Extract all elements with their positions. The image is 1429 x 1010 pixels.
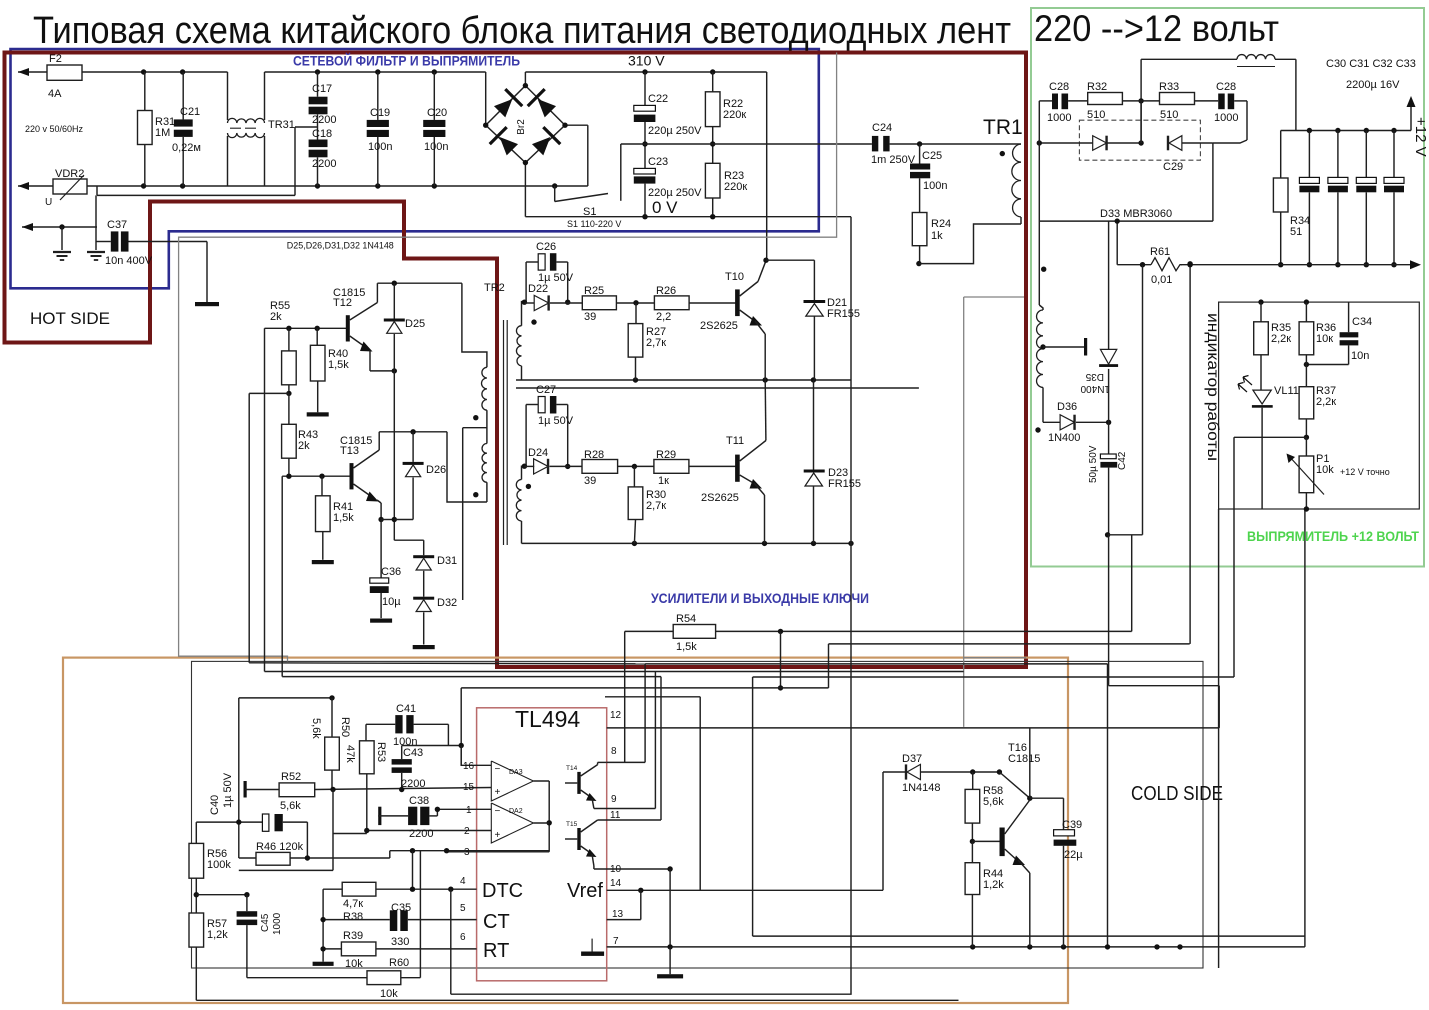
svg-text:DA2: DA2 — [509, 808, 523, 815]
svg-text:220 -->12 вольт: 220 -->12 вольт — [1034, 8, 1279, 49]
svg-text:D32: D32 — [437, 597, 457, 609]
svg-text:R38: R38 — [343, 911, 363, 923]
svg-text:2200: 2200 — [312, 158, 336, 170]
svg-text:TR1: TR1 — [983, 116, 1023, 139]
svg-text:C37: C37 — [107, 219, 127, 231]
svg-text:9: 9 — [611, 794, 617, 805]
svg-text:220 v 50/60Hz: 220 v 50/60Hz — [25, 124, 84, 134]
svg-text:TL494: TL494 — [515, 706, 580, 732]
svg-text:4: 4 — [460, 876, 466, 887]
svg-text:330: 330 — [391, 936, 409, 948]
svg-text:8: 8 — [611, 746, 617, 757]
svg-text:100n: 100n — [923, 180, 947, 192]
svg-text:47k: 47k — [344, 745, 356, 763]
svg-text:HOT SIDE: HOT SIDE — [30, 309, 110, 328]
svg-text:D22: D22 — [528, 283, 548, 295]
svg-text:C34: C34 — [1352, 316, 1372, 328]
svg-text:10k: 10k — [1316, 464, 1334, 476]
svg-text:T15: T15 — [566, 821, 578, 828]
svg-text:100k: 100k — [207, 859, 231, 871]
svg-text:5,6k: 5,6k — [280, 800, 301, 812]
svg-text:0 V: 0 V — [652, 198, 678, 217]
svg-text:1000: 1000 — [1047, 112, 1071, 124]
svg-text:10n 400V: 10n 400V — [105, 255, 153, 267]
svg-text:2S2625: 2S2625 — [701, 492, 739, 504]
svg-text:2k: 2k — [270, 311, 282, 323]
svg-text:2,2: 2,2 — [656, 311, 671, 323]
svg-text:C39: C39 — [1062, 819, 1082, 831]
svg-text:T10: T10 — [725, 271, 744, 283]
svg-text:C19: C19 — [370, 107, 390, 119]
svg-text:D35: D35 — [1085, 371, 1104, 382]
svg-text:C25: C25 — [922, 150, 942, 162]
svg-text:COLD SIDE: COLD SIDE — [1131, 783, 1223, 805]
svg-text:220к: 220к — [723, 109, 746, 121]
svg-text:1,5k: 1,5k — [328, 359, 349, 371]
svg-text:13: 13 — [612, 909, 624, 920]
svg-text:TR2: TR2 — [484, 282, 505, 294]
svg-text:R53: R53 — [375, 742, 387, 762]
svg-text:C26: C26 — [536, 241, 556, 253]
svg-text:+: + — [495, 787, 501, 798]
svg-text:TR31: TR31 — [268, 119, 295, 131]
svg-text:C38: C38 — [409, 795, 429, 807]
svg-text:C30 C31 C32 C33: C30 C31 C32 C33 — [1326, 58, 1416, 70]
svg-text:22µ: 22µ — [1064, 849, 1083, 861]
svg-text:D36: D36 — [1057, 401, 1077, 413]
svg-text:T13: T13 — [340, 445, 359, 457]
svg-text:2,7к: 2,7к — [646, 337, 666, 349]
svg-text:DTC: DTC — [482, 880, 523, 902]
svg-text:R28: R28 — [584, 449, 604, 461]
svg-text:C27: C27 — [536, 384, 556, 396]
svg-text:1: 1 — [466, 805, 472, 816]
svg-text:6: 6 — [460, 932, 466, 943]
svg-text:R39: R39 — [343, 930, 363, 942]
svg-text:T14: T14 — [566, 765, 578, 772]
svg-text:0,01: 0,01 — [1151, 274, 1172, 286]
svg-text:12: 12 — [610, 710, 622, 721]
svg-text:УСИЛИТЕЛИ И ВЫХОДНЫЕ КЛЮЧИ: УСИЛИТЕЛИ И ВЫХОДНЫЕ КЛЮЧИ — [651, 590, 869, 606]
svg-text:C28: C28 — [1216, 81, 1236, 93]
svg-text:2200: 2200 — [312, 114, 336, 126]
svg-text:C35: C35 — [391, 902, 411, 914]
svg-text:1,2k: 1,2k — [983, 879, 1004, 891]
svg-text:S1 110-220 V: S1 110-220 V — [567, 219, 621, 229]
svg-text:1,5k: 1,5k — [676, 641, 697, 653]
svg-text:310 V: 310 V — [628, 53, 665, 69]
svg-text:C40: C40 — [209, 795, 221, 815]
svg-text:7: 7 — [613, 936, 619, 947]
svg-text:2,2к: 2,2к — [1271, 333, 1291, 345]
svg-text:C42: C42 — [1117, 451, 1128, 470]
svg-text:T11: T11 — [726, 435, 744, 447]
svg-text:5: 5 — [460, 903, 466, 914]
svg-text:D25,D26,D31,D32 1N4148: D25,D26,D31,D32 1N4148 — [287, 241, 394, 251]
svg-text:−: − — [495, 764, 501, 775]
svg-text:T12: T12 — [333, 297, 352, 309]
svg-text:D26: D26 — [426, 464, 446, 476]
svg-text:индикатор работы: индикатор работы — [1204, 313, 1221, 461]
svg-text:CT: CT — [483, 911, 510, 933]
svg-text:1000: 1000 — [272, 912, 283, 935]
svg-text:F2: F2 — [49, 53, 62, 65]
svg-text:C41: C41 — [396, 703, 416, 715]
svg-text:39: 39 — [584, 311, 596, 323]
svg-text:0,22м: 0,22м — [172, 142, 201, 154]
svg-text:R32: R32 — [1087, 81, 1107, 93]
svg-text:1,2k: 1,2k — [207, 929, 228, 941]
svg-text:C29: C29 — [1163, 161, 1183, 173]
svg-text:2,2к: 2,2к — [1316, 396, 1336, 408]
svg-text:2k: 2k — [298, 440, 310, 452]
svg-text:1N400: 1N400 — [1048, 432, 1080, 444]
svg-text:C45: C45 — [260, 913, 271, 932]
svg-text:2,7к: 2,7к — [646, 500, 666, 512]
svg-text:1к: 1к — [658, 475, 669, 487]
svg-text:1000: 1000 — [1214, 112, 1238, 124]
svg-text:R46 120k: R46 120k — [256, 841, 304, 853]
svg-text:51: 51 — [1290, 226, 1302, 238]
svg-text:3: 3 — [464, 847, 470, 858]
svg-text:C22: C22 — [648, 93, 668, 105]
svg-text:C28: C28 — [1049, 81, 1069, 93]
svg-text:R52: R52 — [281, 771, 301, 783]
svg-text:C23: C23 — [648, 156, 668, 168]
svg-text:10k: 10k — [380, 988, 398, 1000]
svg-text:2: 2 — [464, 826, 470, 837]
svg-text:+: + — [495, 830, 501, 841]
svg-text:RT: RT — [483, 940, 509, 962]
svg-text:VDR2: VDR2 — [55, 168, 84, 180]
svg-text:5,6k: 5,6k — [983, 796, 1004, 808]
svg-text:100n: 100n — [368, 141, 392, 153]
svg-text:C20: C20 — [427, 107, 447, 119]
svg-text:R33: R33 — [1159, 81, 1179, 93]
svg-text:2200µ 16V: 2200µ 16V — [1346, 79, 1400, 91]
svg-text:2200: 2200 — [409, 828, 433, 840]
svg-text:1M: 1M — [155, 127, 170, 139]
svg-text:1,5k: 1,5k — [333, 512, 354, 524]
svg-text:220µ 250V: 220µ 250V — [648, 125, 702, 137]
svg-text:D33 MBR3060: D33 MBR3060 — [1100, 208, 1172, 220]
svg-text:2S2625: 2S2625 — [700, 320, 738, 332]
svg-text:U: U — [45, 197, 52, 208]
svg-text:10µ: 10µ — [382, 596, 401, 608]
svg-text:C21: C21 — [180, 106, 200, 118]
svg-text:4A: 4A — [48, 88, 62, 100]
svg-text:СЕТЕВОЙ ФИЛЬТР И ВЫПРЯМИТЕЛЬ: СЕТЕВОЙ ФИЛЬТР И ВЫПРЯМИТЕЛЬ — [293, 52, 520, 69]
svg-text:16: 16 — [463, 761, 475, 772]
svg-text:C43: C43 — [403, 747, 423, 759]
svg-text:R24: R24 — [931, 218, 951, 230]
svg-text:C18: C18 — [312, 128, 332, 140]
svg-text:510: 510 — [1087, 109, 1105, 121]
svg-text:C24: C24 — [872, 122, 892, 134]
svg-text:R25: R25 — [584, 285, 604, 297]
svg-text:50µ 50V: 50µ 50V — [1088, 445, 1099, 483]
svg-text:−: − — [495, 806, 501, 817]
svg-text:C36: C36 — [381, 566, 401, 578]
svg-text:R61: R61 — [1150, 246, 1170, 258]
svg-text:R54: R54 — [676, 613, 696, 625]
svg-text:C1815: C1815 — [1008, 753, 1040, 765]
svg-text:4,7к: 4,7к — [343, 898, 363, 910]
svg-text:1N400: 1N400 — [1080, 383, 1110, 394]
svg-text:1N4148: 1N4148 — [902, 782, 941, 794]
svg-text:+12 V: +12 V — [1412, 117, 1429, 157]
svg-text:R29: R29 — [656, 449, 676, 461]
svg-text:14: 14 — [610, 878, 622, 889]
svg-text:10k: 10k — [345, 958, 363, 970]
svg-text:2200: 2200 — [401, 778, 425, 790]
svg-text:220к: 220к — [724, 181, 747, 193]
svg-text:510: 510 — [1160, 109, 1178, 121]
svg-text:R50: R50 — [339, 717, 351, 737]
svg-text:DA3: DA3 — [509, 769, 523, 776]
svg-text:Vref: Vref — [567, 880, 603, 902]
svg-text:1µ 50V: 1µ 50V — [222, 772, 234, 808]
svg-text:1k: 1k — [931, 230, 943, 242]
svg-text:1m 250V: 1m 250V — [871, 154, 916, 166]
svg-text:D24: D24 — [528, 447, 548, 459]
svg-text:C17: C17 — [312, 83, 332, 95]
svg-text:39: 39 — [584, 475, 596, 487]
svg-text:15: 15 — [463, 782, 475, 793]
svg-text:100n: 100n — [424, 141, 448, 153]
svg-text:R60: R60 — [389, 957, 409, 969]
svg-text:R26: R26 — [656, 285, 676, 297]
svg-text:220µ 250V: 220µ 250V — [648, 187, 702, 199]
svg-text:VL11: VL11 — [1274, 385, 1299, 397]
svg-text:Br2: Br2 — [516, 119, 527, 135]
svg-text:D31: D31 — [437, 555, 457, 567]
svg-text:10n: 10n — [1351, 350, 1369, 362]
svg-text:FR155: FR155 — [827, 308, 860, 320]
svg-text:ВЫПРЯМИТЕЛЬ +12 ВОЛЬТ: ВЫПРЯМИТЕЛЬ +12 ВОЛЬТ — [1247, 528, 1419, 544]
svg-text:D25: D25 — [405, 318, 425, 330]
svg-text:+12 V точно: +12 V точно — [1340, 467, 1390, 477]
svg-text:10к: 10к — [1316, 333, 1333, 345]
svg-text:D37: D37 — [902, 753, 922, 765]
svg-text:5,6k: 5,6k — [310, 718, 322, 739]
svg-text:Типовая схема китайского блока: Типовая схема китайского блока питания с… — [33, 10, 1011, 52]
svg-text:FR155: FR155 — [828, 478, 861, 490]
